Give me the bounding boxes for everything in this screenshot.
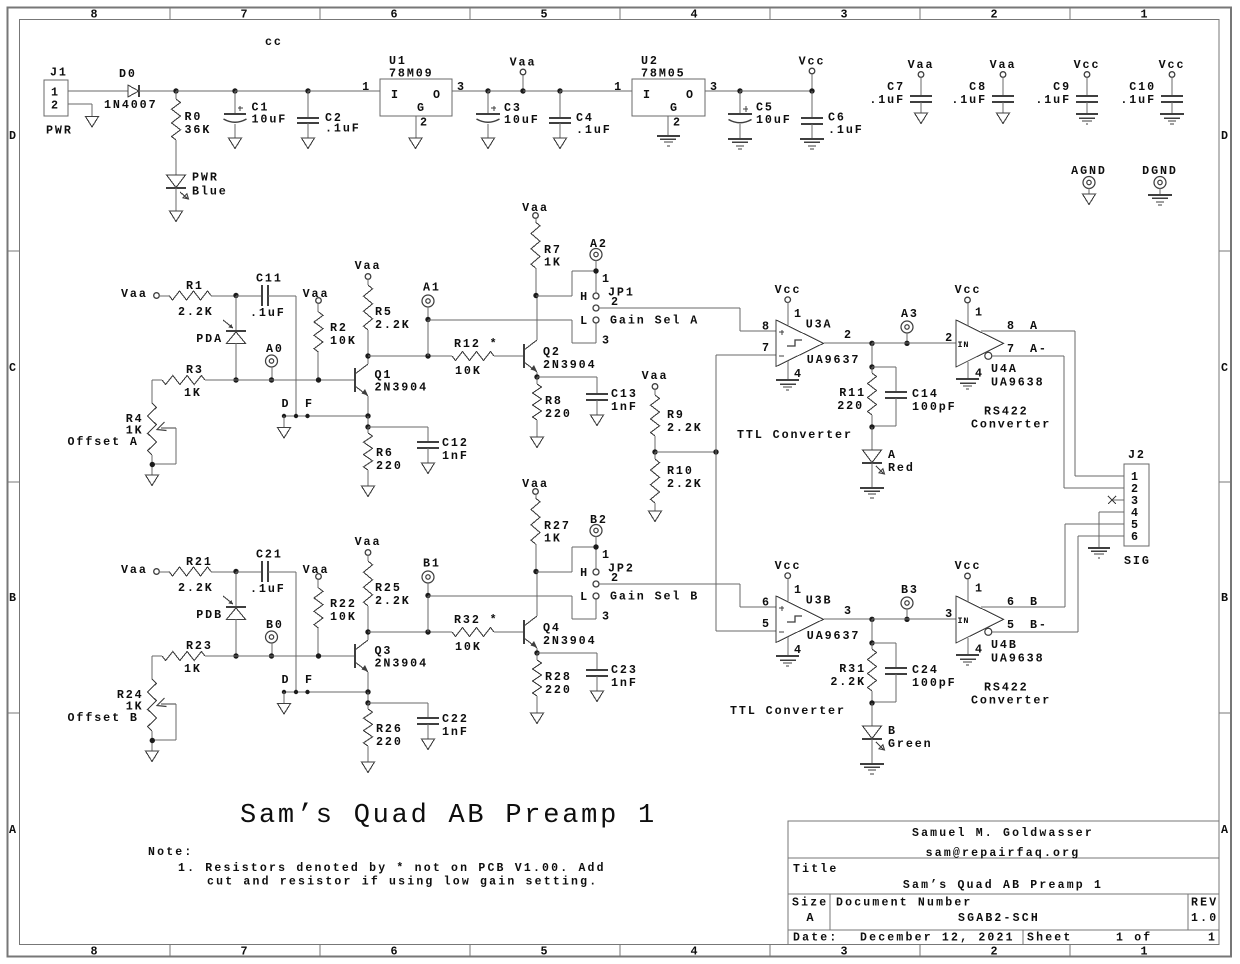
ground U4A <box>956 362 979 389</box>
svg-text:6: 6 <box>391 945 400 959</box>
svg-text:D: D <box>9 129 18 143</box>
svg-text:2: 2 <box>420 116 429 130</box>
svg-text:Samuel M. Goldwasser: Samuel M. Goldwasser <box>912 827 1094 840</box>
svg-text:A0: A0 <box>266 342 284 356</box>
svg-text:2: 2 <box>611 295 620 309</box>
inverting output bubble U4A <box>985 352 992 359</box>
junction Vaa <box>520 88 525 93</box>
junction <box>425 629 430 634</box>
svg-text:Sam’s Quad AB Preamp 1: Sam’s Quad AB Preamp 1 <box>240 801 657 831</box>
junction <box>365 424 370 429</box>
svg-text:3: 3 <box>457 80 466 94</box>
junction collector <box>365 629 370 634</box>
svg-text:1: 1 <box>1141 945 1150 959</box>
node A2 <box>590 237 608 271</box>
svg-text:L: L <box>580 590 589 604</box>
svg-text:Title: Title <box>793 863 839 876</box>
node D <box>282 397 291 428</box>
svg-text:Vaa: Vaa <box>990 58 1017 72</box>
svg-text:.1uF: .1uF <box>250 306 286 320</box>
ground LED earth <box>860 763 884 765</box>
jumper JP2 Gain Sel B <box>580 548 699 624</box>
svg-text:1: 1 <box>614 80 623 94</box>
svg-text:8: 8 <box>1007 319 1016 333</box>
svg-text:I: I <box>643 88 652 102</box>
wire collector <box>367 632 369 640</box>
resistor R8 220 <box>533 377 572 437</box>
svg-text:Vcc: Vcc <box>955 559 982 573</box>
svg-text:10uF: 10uF <box>252 113 288 127</box>
ground pot <box>146 751 159 762</box>
svg-text:78M05: 78M05 <box>641 67 686 81</box>
wire cap to D/F row <box>268 572 296 692</box>
svg-text:IN: IN <box>958 616 970 626</box>
node F <box>305 673 314 694</box>
svg-text:1: 1 <box>794 583 803 597</box>
svg-text:.1uF: .1uF <box>576 123 612 137</box>
svg-text:C: C <box>1221 361 1230 375</box>
junction <box>425 317 430 322</box>
svg-text:1: 1 <box>362 80 371 94</box>
LED PWR Blue <box>166 171 228 200</box>
svg-text:2.2K: 2.2K <box>830 675 866 689</box>
capacitor C6 .1uF <box>801 91 864 139</box>
svg-text:PDB: PDB <box>196 608 223 622</box>
svg-text:Offset B: Offset B <box>68 711 139 725</box>
ground U1 <box>409 138 422 149</box>
wire Q emitter down <box>536 648 538 653</box>
svg-text:C13: C13 <box>611 387 638 401</box>
svg-text:1: 1 <box>1141 8 1150 22</box>
svg-text:2: 2 <box>945 331 954 345</box>
svg-text:PDA: PDA <box>196 332 223 346</box>
power Vcc U3A <box>775 283 802 325</box>
svg-text:D0: D0 <box>119 67 137 81</box>
power Vaa R7 <box>522 201 549 218</box>
svg-text:Converter: Converter <box>971 418 1051 432</box>
junction <box>233 377 238 382</box>
wire Q emitter down <box>536 372 538 377</box>
svg-text:C12: C12 <box>442 436 469 450</box>
svg-text:Q2: Q2 <box>543 345 561 359</box>
wire reference to U3A pin7 <box>716 354 776 356</box>
wire gain select low <box>428 596 596 619</box>
node B2 <box>590 513 608 547</box>
svg-text:sam@repairfaq.org: sam@repairfaq.org <box>926 847 1081 860</box>
wire emitter <box>367 396 369 416</box>
junction emitter <box>365 413 370 418</box>
svg-text:1nF: 1nF <box>442 725 469 739</box>
svg-text:C11: C11 <box>256 272 283 286</box>
ground DGND earth <box>1148 194 1172 196</box>
junction emitter <box>365 689 370 694</box>
svg-text:R31: R31 <box>839 662 866 676</box>
transistor Q3 2N3904 <box>355 640 428 672</box>
svg-text:Sam’s Quad AB Preamp 1: Sam’s Quad AB Preamp 1 <box>903 879 1103 892</box>
wire C2 to U1 <box>308 90 380 92</box>
svg-text:1K: 1K <box>184 386 202 400</box>
inverting output bubble U4B <box>985 628 992 635</box>
ground R10 <box>649 511 662 522</box>
svg-text:1. Resistors denoted by * not: 1. Resistors denoted by * not on PCB V1.… <box>178 862 606 875</box>
power Vcc U3B <box>775 559 802 601</box>
svg-text:Red: Red <box>888 461 915 475</box>
wire emitter to C12 row <box>367 692 369 703</box>
wire R0 to PWR LED <box>175 140 177 175</box>
wire converter output to node <box>872 618 907 620</box>
buffer U4A UA9638 <box>945 306 1044 390</box>
wire B to J2 pin5 <box>1065 524 1124 607</box>
svg-text:7: 7 <box>1007 342 1016 356</box>
junction jumper pin1 <box>593 268 598 273</box>
junction node <box>904 617 909 622</box>
svg-text:R25: R25 <box>375 581 402 595</box>
power Vaa R9 <box>642 369 669 389</box>
ground R6 <box>362 486 375 497</box>
ground U3A <box>776 361 799 390</box>
power Vaa R2 <box>303 287 330 303</box>
svg-text:R10: R10 <box>667 464 694 478</box>
svg-text:100pF: 100pF <box>912 676 957 690</box>
label RS422 Converter <box>971 681 1051 708</box>
wire U3A output <box>824 342 872 344</box>
junction C11 tap <box>294 690 298 694</box>
svg-text:10K: 10K <box>330 334 357 348</box>
svg-text:Document Number: Document Number <box>836 897 973 910</box>
junction output <box>869 617 874 622</box>
svg-text:1: 1 <box>602 548 611 562</box>
LED A Red <box>862 427 915 487</box>
ground LED earth <box>860 487 884 489</box>
ground U4B <box>956 638 979 665</box>
svg-text:2N3904: 2N3904 <box>543 634 596 648</box>
svg-text:R8: R8 <box>545 394 563 408</box>
svg-text:UA9637: UA9637 <box>807 353 860 367</box>
ground C10 <box>1160 113 1184 115</box>
svg-text:4: 4 <box>794 643 803 657</box>
svg-text:Note:: Note: <box>148 846 194 859</box>
junction jumper pin1 <box>593 544 598 549</box>
svg-text:Offset A: Offset A <box>68 435 139 449</box>
svg-text:.1uF: .1uF <box>1120 93 1156 107</box>
capacitor C8 .1uF <box>951 80 1014 113</box>
svg-text:R2: R2 <box>330 321 348 335</box>
junction <box>869 364 874 369</box>
wire D F emitter row <box>284 691 368 693</box>
svg-text:R0: R0 <box>185 110 203 124</box>
junction C5 <box>737 88 742 93</box>
node B3 <box>901 583 919 619</box>
svg-text:R22: R22 <box>330 597 357 611</box>
junction <box>173 88 178 93</box>
svg-text:A: A <box>9 823 18 837</box>
wire A to J2 pin1 <box>1075 331 1124 476</box>
resistor R11 220 <box>837 367 876 427</box>
svg-text:7: 7 <box>241 8 250 22</box>
capacitor C2 .1uF <box>297 91 361 138</box>
ground U3B <box>776 637 799 666</box>
svg-text:A: A <box>888 448 897 462</box>
svg-text:cut and resistor if using low: cut and resistor if using low gain setti… <box>207 876 598 889</box>
svg-text:1: 1 <box>975 306 984 320</box>
svg-text:220: 220 <box>545 407 572 421</box>
ground pot <box>146 475 159 486</box>
wire cap to D/F row <box>268 296 296 416</box>
svg-text:4: 4 <box>691 8 700 22</box>
junction divider <box>652 449 657 454</box>
svg-text:R3: R3 <box>186 363 204 377</box>
svg-text:8: 8 <box>762 320 771 334</box>
diode D0 1N4007 <box>104 67 157 112</box>
wire R to node <box>211 295 236 297</box>
svg-text:10uF: 10uF <box>756 113 792 127</box>
svg-text:C24: C24 <box>912 663 939 677</box>
ground C6 earth <box>800 138 824 140</box>
svg-text:2: 2 <box>673 116 682 130</box>
no-connect J2 pin3 <box>1108 496 1124 504</box>
svg-text:UA9637: UA9637 <box>807 629 860 643</box>
svg-text:F: F <box>305 397 314 411</box>
svg-text:.1uF: .1uF <box>828 123 864 137</box>
wire Q collector up <box>536 296 538 340</box>
connector J2 SIG <box>1124 448 1151 568</box>
capacitor C10 .1uF <box>1120 80 1183 113</box>
svg-text:Q4: Q4 <box>543 621 561 635</box>
junction <box>365 700 370 705</box>
resistor R9 2.2K <box>651 389 703 452</box>
wire jumper pin2 to converter <box>599 308 776 331</box>
svg-text:7: 7 <box>762 341 771 355</box>
label pins B- <box>1007 618 1048 632</box>
svg-text:R5: R5 <box>375 305 393 319</box>
svg-text:2: 2 <box>991 945 1000 959</box>
svg-text:D: D <box>282 397 291 411</box>
svg-text:B1: B1 <box>423 557 441 571</box>
wire output to divider <box>871 619 873 643</box>
svg-text:220: 220 <box>545 683 572 697</box>
svg-text:3: 3 <box>602 334 611 348</box>
svg-text:5: 5 <box>541 945 550 959</box>
resistor R2 10K <box>314 303 357 380</box>
svg-text:1.0: 1.0 <box>1191 912 1218 925</box>
capacitor C11 .1uF <box>236 272 286 321</box>
ground C4 <box>554 138 567 149</box>
capacitor C1 10uF <box>224 91 288 138</box>
svg-text:78M09: 78M09 <box>389 67 434 81</box>
svg-text:R28: R28 <box>545 670 572 684</box>
ground PWR LED <box>170 211 183 222</box>
junction C1 <box>232 88 237 93</box>
node F <box>305 397 314 418</box>
wire divider to reference <box>655 451 716 453</box>
svg-text:2.2K: 2.2K <box>178 305 214 319</box>
wire gain select low <box>428 320 596 343</box>
photodiode PDB <box>196 572 246 656</box>
svg-text:SIG: SIG <box>1124 554 1151 568</box>
wire output to divider <box>871 343 873 367</box>
svg-text:C: C <box>9 361 18 375</box>
svg-text:I: I <box>391 88 400 102</box>
power Vaa R21 <box>121 563 159 577</box>
svg-text:C7: C7 <box>887 80 905 94</box>
buffer U4B UA9638 <box>945 582 1044 666</box>
svg-text:R21: R21 <box>186 555 213 569</box>
svg-text:TTL Converter: TTL Converter <box>737 428 853 442</box>
svg-text:Vaa: Vaa <box>510 56 537 70</box>
wire J1 pin2 to ground <box>68 104 92 116</box>
wire node to C1 <box>176 90 235 92</box>
svg-text:G: G <box>417 101 426 115</box>
wire output B <box>981 606 1065 608</box>
svg-text:Converter: Converter <box>971 694 1051 708</box>
label pins B <box>1007 595 1039 609</box>
svg-text:6: 6 <box>762 596 771 610</box>
ground R8 <box>531 437 544 448</box>
node D <box>282 673 291 704</box>
junction <box>269 653 274 658</box>
ground C13 <box>591 415 604 426</box>
svg-text:10K: 10K <box>455 364 482 378</box>
junction <box>869 700 874 705</box>
svg-text:RS422: RS422 <box>984 681 1029 695</box>
potentiometer R24 1K Offset <box>68 679 177 751</box>
svg-text:6: 6 <box>391 8 400 22</box>
svg-text:1K: 1K <box>184 662 202 676</box>
power Vaa R22 <box>303 563 330 579</box>
svg-text:.1uF: .1uF <box>250 582 286 596</box>
ground R6 <box>362 762 375 773</box>
wire collector rail <box>368 631 452 633</box>
junction R7/collector <box>533 293 538 298</box>
svg-text:2: 2 <box>844 328 853 342</box>
svg-text:100pF: 100pF <box>912 400 957 414</box>
resistor R0 36K <box>172 91 212 140</box>
ground D <box>278 428 291 439</box>
wire emitter to C12 row <box>367 416 369 427</box>
ground C7 <box>915 113 928 124</box>
svg-text:B: B <box>1221 591 1230 605</box>
resistor R6 220 <box>364 427 403 486</box>
svg-text:2.2K: 2.2K <box>178 581 214 595</box>
ground C8 <box>997 113 1010 124</box>
svg-text:1: 1 <box>1208 932 1217 945</box>
svg-text:.1uF: .1uF <box>325 122 361 136</box>
svg-text:R32 *: R32 * <box>454 613 499 627</box>
svg-text:UA9638: UA9638 <box>991 376 1044 390</box>
capacitor C5 10uF <box>728 91 792 139</box>
ground J2 earth <box>1088 547 1110 549</box>
junction Q2 emitter <box>534 650 539 655</box>
svg-text:L: L <box>580 314 589 328</box>
wire C1 to C2 <box>235 90 308 92</box>
svg-text:220: 220 <box>376 735 403 749</box>
svg-text:C22: C22 <box>442 712 469 726</box>
wire jumper pin1 <box>536 271 596 296</box>
svg-text:3: 3 <box>710 80 719 94</box>
junction C11 tap <box>294 414 298 418</box>
junction <box>233 653 238 658</box>
wire base rail <box>236 655 355 657</box>
svg-text:R6: R6 <box>376 446 394 460</box>
LED B Green <box>862 703 933 763</box>
capacitor C21 .1uF <box>236 548 286 597</box>
junction <box>150 462 155 467</box>
junction <box>869 424 874 429</box>
wire collector rail <box>368 355 452 357</box>
svg-text:2N3904: 2N3904 <box>375 381 428 395</box>
wire D F emitter row <box>284 415 368 417</box>
svg-text:G: G <box>670 101 679 115</box>
svg-text:6: 6 <box>1131 530 1140 544</box>
svg-text:C14: C14 <box>912 387 939 401</box>
wire C5 to Vcc <box>740 90 812 92</box>
svg-text:B3: B3 <box>901 583 919 597</box>
ground C3 <box>482 138 495 149</box>
resistor R3 1K <box>162 363 236 400</box>
power Vcc top <box>799 55 826 92</box>
svg-text:J1: J1 <box>50 66 68 80</box>
jumper JP1 Gain Sel A <box>580 272 699 348</box>
svg-text:.1uF: .1uF <box>869 93 905 107</box>
svg-text:H: H <box>580 566 589 580</box>
wire node to collector rail <box>427 320 429 356</box>
svg-text:3: 3 <box>945 607 954 621</box>
ground U2 earth <box>657 135 680 137</box>
svg-text:1: 1 <box>51 86 60 100</box>
wire R to node <box>211 571 236 573</box>
svg-text:Vcc: Vcc <box>775 559 802 573</box>
svg-text:UA9638: UA9638 <box>991 652 1044 666</box>
svg-text:C9: C9 <box>1053 80 1071 94</box>
junction Q2 emitter <box>534 374 539 379</box>
svg-text:PWR: PWR <box>46 124 73 138</box>
svg-text:220: 220 <box>837 399 864 413</box>
svg-text:Vcc: Vcc <box>1074 58 1101 72</box>
node DGND <box>1142 164 1178 195</box>
potentiometer R4 1K Offset <box>68 403 177 475</box>
svg-text:Vaa: Vaa <box>121 287 148 301</box>
svg-text:Vaa: Vaa <box>355 535 382 549</box>
resistor R28 220 <box>533 653 572 713</box>
wire U2 out <box>705 90 740 92</box>
svg-text:Green: Green <box>888 737 933 751</box>
capacitor C23 1nF <box>537 653 638 691</box>
node B1 <box>422 557 441 597</box>
junction <box>316 377 321 382</box>
svg-text:J2: J2 <box>1128 448 1146 462</box>
svg-text:4: 4 <box>691 945 700 959</box>
svg-text:1: 1 <box>794 307 803 321</box>
resistor R7 1K <box>531 218 562 296</box>
capacitor C7 .1uF <box>869 80 932 113</box>
resistor R5 2.2K <box>364 279 411 356</box>
svg-text:U4A: U4A <box>991 362 1018 376</box>
svg-text:2.2K: 2.2K <box>667 477 703 491</box>
svg-text:1K: 1K <box>544 256 562 270</box>
wire A- to J2 pin2 <box>1064 356 1124 488</box>
junction C2 <box>305 88 310 93</box>
capacitor C13 1nF <box>537 377 638 415</box>
capacitor C9 .1uF <box>1035 80 1098 113</box>
svg-text:2: 2 <box>991 8 1000 22</box>
resistor R21 2.2K <box>159 555 214 595</box>
power Vaa R5 <box>355 259 382 279</box>
resistor R26 220 <box>364 703 403 762</box>
svg-text:2.2K: 2.2K <box>667 421 703 435</box>
resistor R31 2.2K <box>830 643 876 703</box>
svg-text:5: 5 <box>1007 618 1016 632</box>
svg-text:8: 8 <box>91 945 100 959</box>
